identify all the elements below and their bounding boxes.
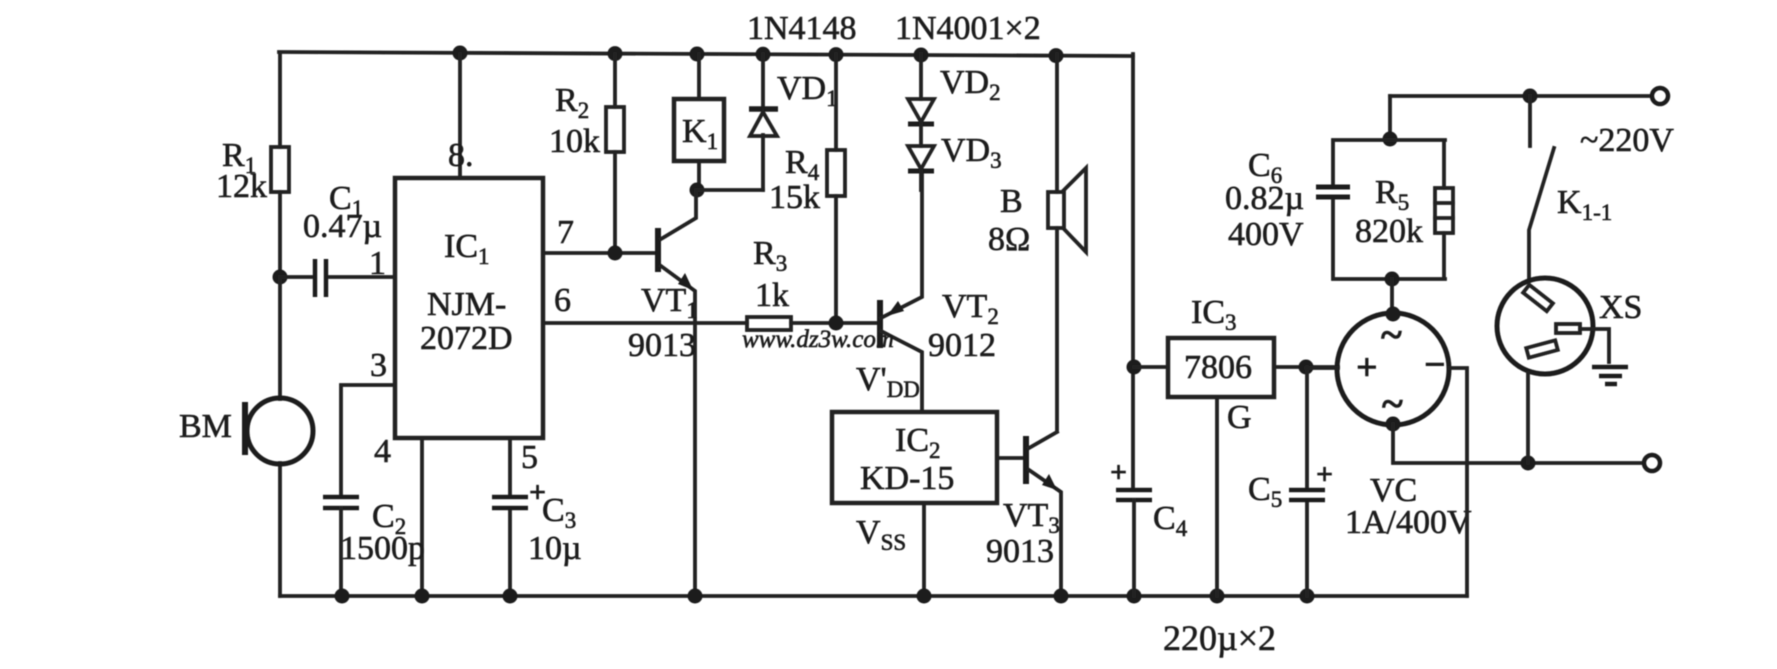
svg-text:~: ~ [1382, 381, 1403, 426]
svg-text:www.dz3w.com: www.dz3w.com [742, 326, 894, 353]
transistor VT2 (9012 PNP) [880, 171, 999, 412]
svg-text:0.47µ: 0.47µ [303, 208, 382, 245]
diode VD2 (1N4001) [908, 54, 1001, 146]
node: C6/R5 top junction [1383, 132, 1398, 147]
svg-text:1500p: 1500p [340, 530, 425, 567]
resistor R2 [549, 54, 624, 253]
svg-text:10µ: 10µ [528, 530, 582, 567]
IC2 KD-15 box [832, 412, 997, 503]
pin 6 wire [543, 282, 747, 323]
capacitor C2 [323, 497, 425, 596]
IC3 7806 regulator [1134, 294, 1338, 397]
svg-text:1A/400V: 1A/400V [1345, 504, 1472, 541]
wire: right top rail (~220V line) [1390, 89, 1652, 140]
node: R3/R4 junction [829, 316, 844, 331]
svg-text:+: + [1356, 347, 1378, 389]
resistor R3 (1k) [747, 235, 880, 330]
svg-text:KD-15: KD-15 [860, 460, 954, 497]
transistor VT3 (9013 NPN) [986, 432, 1061, 596]
svg-text:~: ~ [1381, 312, 1402, 357]
capacitor C4 (polarized) [1110, 456, 1188, 596]
svg-text:1N4148: 1N4148 [747, 10, 857, 47]
resistor R1 [216, 54, 289, 277]
node: 7806 output / C5 junction [1299, 360, 1314, 375]
svg-text:820k: 820k [1355, 213, 1423, 250]
microphone BM [179, 277, 313, 596]
svg-text:B: B [1000, 183, 1023, 220]
op-amp U1: IC1 NJM-2072D box [395, 178, 543, 438]
svg-text:NJM-: NJM- [427, 286, 506, 323]
svg-text:~220V: ~220V [1580, 122, 1674, 159]
pin 8 wire [448, 54, 474, 178]
node VSS label + wire [856, 503, 924, 596]
wire: top rail to 7806 input [1127, 54, 1142, 490]
node: K1 bottom / VD1 / VT1 collector [690, 183, 764, 198]
transistor VT1 (9013 NPN) [628, 190, 698, 596]
svg-text:0.82µ: 0.82µ [1225, 180, 1304, 217]
node: R2/pin7 junction [608, 246, 623, 261]
svg-text:4: 4 [374, 433, 391, 470]
svg-text:220µ×2: 220µ×2 [1163, 618, 1276, 658]
relay K1 [674, 54, 724, 190]
svg-text:G: G [1227, 399, 1252, 436]
svg-text:3: 3 [370, 347, 387, 384]
wire: 7806 G pin [1217, 397, 1252, 596]
svg-text:1N4001×2: 1N4001×2 [895, 10, 1041, 47]
pin 3 wire [341, 347, 395, 497]
speaker B (8 ohm) [988, 54, 1086, 431]
svg-text:XS: XS [1599, 289, 1642, 326]
wire: bottom ground rail [280, 594, 1467, 598]
svg-text:1k: 1k [755, 277, 789, 314]
svg-text:400V: 400V [1228, 216, 1304, 253]
resistor R5 [1355, 174, 1453, 250]
svg-text:1: 1 [369, 245, 386, 282]
svg-text:8Ω: 8Ω [988, 221, 1030, 258]
capacitor C1 [280, 180, 395, 297]
capacitor C3 (polarized) [492, 476, 582, 567]
wire: bridge + output to C5 node [1306, 366, 1338, 370]
diode VD1 (1N4148 flyback) [749, 54, 838, 190]
svg-text:−: − [1424, 344, 1446, 386]
bridge rectifier VC [1337, 307, 1472, 542]
node: C6/R5 bottom junction [1385, 272, 1400, 315]
terminal: 220V upper [1652, 88, 1668, 104]
capacitor C6 with R5 parallel loop [1225, 140, 1445, 279]
svg-text:10k: 10k [549, 123, 600, 160]
svg-text:2072D: 2072D [420, 320, 513, 357]
pin 7 wire [543, 214, 658, 253]
svg-text:+: + [1316, 458, 1333, 491]
wire: bridge AC bottom to XS/terminal [1393, 424, 1644, 471]
svg-text:5: 5 [521, 439, 538, 476]
svg-text:7: 7 [557, 214, 574, 251]
svg-text:7806: 7806 [1184, 349, 1252, 386]
socket XS [1497, 278, 1642, 463]
svg-text:15k: 15k [769, 179, 820, 216]
wire: top VCC rail [279, 52, 1133, 56]
pin 4 wire [374, 433, 422, 596]
svg-text:BM: BM [179, 408, 232, 445]
pin 5 wire [510, 438, 538, 596]
capacitor C5 (polarized) [1248, 367, 1333, 596]
node: bottom rail junction dots [335, 589, 1315, 604]
ground [1592, 367, 1628, 384]
svg-text:6: 6 [554, 282, 571, 319]
wire: bridge - to bottom rail [1449, 368, 1467, 596]
svg-text:8.: 8. [448, 137, 474, 174]
svg-text:9013: 9013 [628, 327, 696, 364]
switch K1-1 [1529, 96, 1612, 281]
node: rail junction dots [453, 46, 1064, 64]
svg-text:+: + [1110, 456, 1127, 489]
svg-text:9012: 9012 [928, 327, 996, 364]
resistor R4 [769, 54, 845, 323]
svg-text:9013: 9013 [986, 533, 1054, 570]
svg-text:12k: 12k [216, 168, 267, 205]
node A: C1/R1 junction [273, 270, 288, 285]
diode VD3 (1N4001) [908, 132, 1002, 190]
terminal: 220V lower [1644, 455, 1660, 471]
